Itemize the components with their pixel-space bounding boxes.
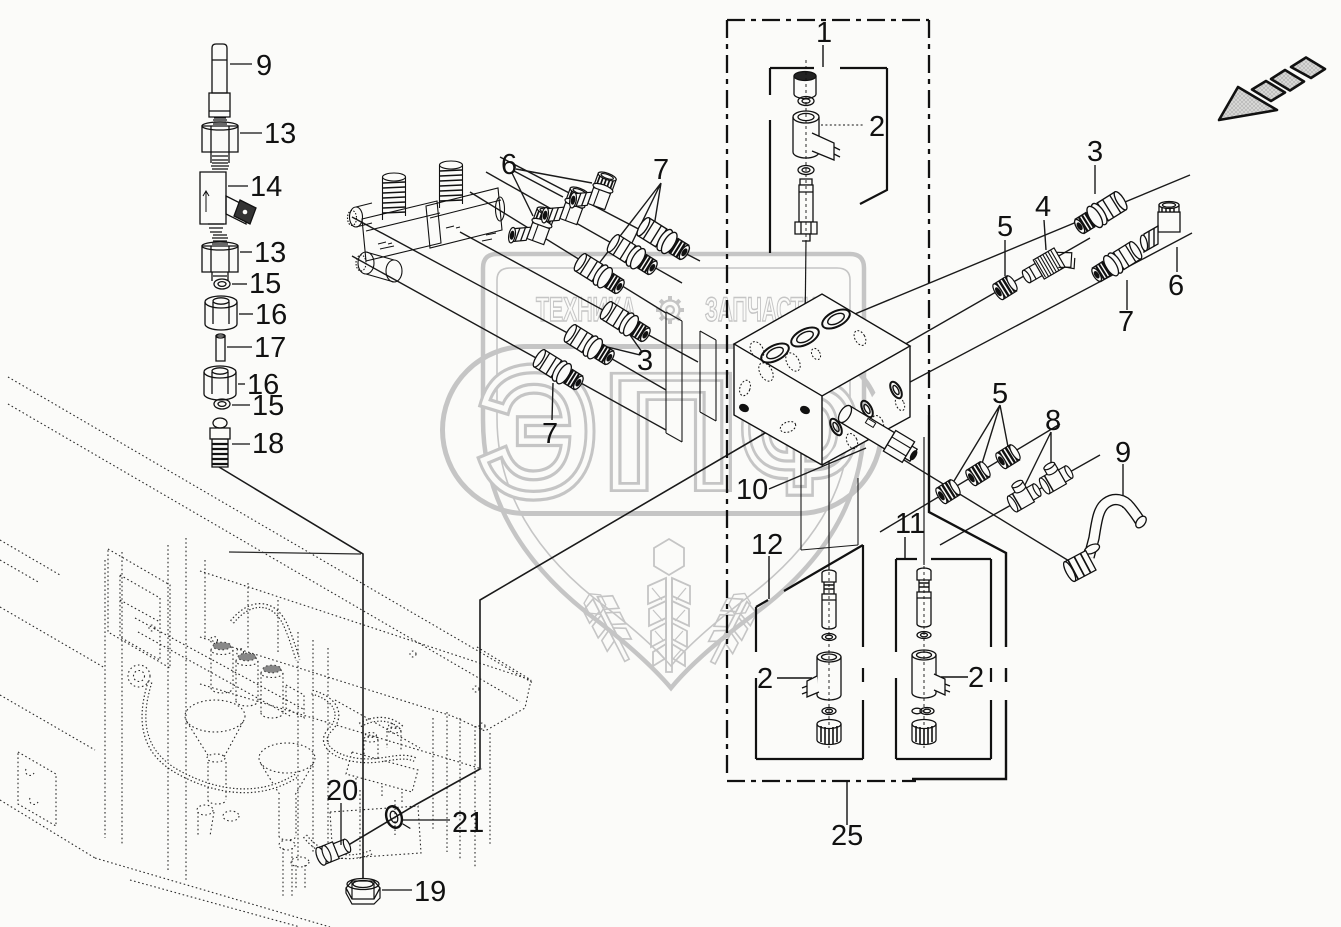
assembly 12 plug [802,560,841,748]
beam screw a [410,651,416,657]
leader label 2 box12 [777,677,812,679]
mounting line block to machine [330,409,806,856]
svg-text:П: П [603,343,739,521]
leader 18 [232,443,250,445]
part 2 valve body top [793,117,819,158]
leader 16 lower [238,383,245,385]
ASSEMBLIES [793,60,950,748]
assembly 11 o-ring [917,632,931,639]
leader 13 lower [240,251,252,253]
leader label 3 fan [587,318,642,355]
funnel 2 bottom valve [291,857,309,867]
STACK [200,44,262,467]
fitting 7 right [1088,239,1145,286]
elbow 8 a [1001,474,1043,514]
box 12 [756,545,863,759]
svg-text:2: 2 [968,662,984,694]
dashed group border top [727,19,929,21]
axis line upper row B-E [486,172,682,283]
part 15 lower o-ring [214,399,230,409]
leader label 4 [1044,220,1046,250]
BOXES [727,20,1006,825]
leader label 5 right [1004,240,1006,276]
leader label 3 right [1094,165,1096,194]
leader 14 [228,185,248,187]
manifold left boss [350,207,363,227]
svg-text:19: 19 [414,876,446,908]
solid enclosure around box 11 [912,415,1006,779]
machine cylinder 3 [261,673,283,718]
fitting 7 row right [634,215,694,265]
part 10 cylinder [835,401,922,466]
elbow fitting 6 left [505,199,557,255]
frame post mid outer [167,545,169,872]
watermark gear [656,296,684,324]
svg-text:13: 13 [264,118,296,150]
part 15 upper o-ring [214,279,230,289]
svg-text:2: 2 [869,111,885,143]
direction arrow dash 2 [1271,70,1304,91]
manifold body right [426,188,502,248]
plate below block [801,452,858,550]
svg-text:6: 6 [1168,270,1184,302]
watermark wheat left ear [578,585,642,668]
elbow 6 right [1139,202,1180,253]
elbow fitting 6 mid [538,179,590,235]
plate for part 20 [330,806,421,859]
machine wheel [128,665,150,687]
block face port dot a [739,403,750,413]
svg-text:11: 11 [895,508,925,540]
leader label 8 fan [1021,432,1051,493]
post right [432,718,434,830]
part 1 stem [800,179,812,185]
manifold 2 feet [356,778,402,804]
manifold body left [362,201,441,261]
leader label 2 box11 [941,676,968,678]
leader 13 upper [240,132,262,134]
svg-text:5: 5 [997,211,1013,243]
svg-text:15: 15 [252,390,284,422]
axis line manifold to H [352,217,666,390]
leader label 7 right [1126,280,1128,310]
nut 5 lower b [964,460,992,487]
part 14 knob [234,200,256,224]
assembly 12 cap [817,724,841,745]
axis part 1 to block [805,240,806,332]
manifold stud left [383,173,406,181]
leader 16 upper [239,313,253,315]
frame beam lower edge [8,404,520,702]
machine top rear line [229,552,361,554]
watermark shield outer [483,254,864,688]
assembly 12 coil [817,657,841,700]
assembly 11 plug [912,560,950,748]
beam end face [452,647,531,731]
part 21 washer [383,803,410,835]
beam bottom edge [200,684,482,769]
part 2 clamp [812,133,840,160]
watermark letter Э [479,331,597,533]
axis line manifold to I [352,256,666,430]
block dotted details top [738,329,907,451]
watermark capsule band [443,347,882,514]
leader label 11 [904,537,906,558]
axis line to part 3 [838,175,1190,321]
axis block to assembly 12 [828,458,830,570]
machine small block [286,685,304,718]
leader label 12 [768,556,770,599]
valve block body [734,294,910,396]
svg-text:14: 14 [250,171,282,203]
WATERMARK [443,254,882,688]
part 14 shut-off valve [211,163,229,169]
part 18 grease fitting [213,418,227,428]
part 4 coupling [1019,241,1080,292]
fitting 3 upper [597,299,654,346]
axis block to assembly 11 [923,437,925,565]
svg-text:20: 20 [326,775,358,807]
svg-text:21: 21 [452,807,484,839]
svg-text:6: 6 [501,149,517,181]
frame bottom sill [0,800,330,927]
axis line upper row A-F [470,192,666,313]
part 13 lower [212,235,228,244]
elbow 8 b [1033,456,1075,496]
axis line upper row C-D [500,157,700,261]
leader label 6 right [1176,247,1178,272]
elbow fitting 6 right [566,164,618,220]
svg-text:9: 9 [1115,437,1131,469]
nut 5 lower a [934,478,962,505]
direction arrow dash 3 [1291,58,1325,79]
leader label 2 top [821,124,864,126]
svg-text:16: 16 [255,299,287,331]
watermark shield inner [497,268,850,666]
beam screw b [473,686,479,692]
manifold end cap [496,197,505,221]
fitting 3 lower [561,322,618,369]
funnel 1 outlet [197,805,213,815]
svg-text:17: 17 [254,332,286,364]
svg-text:4: 4 [1035,191,1051,223]
leader label 5 fan lower [951,405,1009,486]
dashed group border left [726,20,728,773]
fitting 7 bottom [530,347,587,394]
nut 5 lower c [994,443,1022,470]
leader label 7 fan [597,183,661,266]
watermark letter П [603,343,739,521]
extra posts right [0,540,490,868]
axis line manifold to G [460,232,698,362]
part 9 tube [212,44,227,93]
block face port dot b [800,405,811,415]
svg-text:3: 3 [637,345,653,377]
block top port 1 [758,340,792,367]
axis line to part 7 and elbow 6 [895,233,1192,390]
tubes [144,606,416,857]
MACHINE [0,377,533,927]
svg-text:1: 1 [816,17,832,49]
part 16 lower nut [204,372,236,400]
svg-text:15: 15 [249,268,281,300]
shelf bolts [211,637,218,644]
assembly 11 o-rings lower [912,708,922,714]
svg-text:7: 7 [653,154,669,186]
leader label 9 right [1122,464,1124,508]
leader 15 upper [232,283,247,285]
leader 19 [382,889,412,891]
dashed group border bottom [727,780,916,782]
block right port b [859,399,875,419]
direction arrow head [1219,87,1277,120]
leader 21 [403,819,450,821]
part 19 nut [346,879,380,905]
manifold 2 stud b [387,731,401,752]
frame post left inner [121,552,123,845]
AXISLINES [330,157,1192,856]
leader label 6 fan [512,169,592,216]
beam second top edge [200,571,531,680]
block top port 3 [819,306,853,333]
RIGHTPARTS [934,189,1180,583]
manifold stud right [440,161,463,169]
svg-text:9: 9 [256,50,272,82]
ARROW [1219,58,1325,121]
svg-text:13: 13 [254,237,286,269]
leader 17 [227,346,252,348]
svg-text:18: 18 [252,428,284,460]
assembly 12 o-ring lower [822,708,836,715]
frame post mid inner [185,538,187,880]
fitting 7 row left [571,251,628,298]
leader part 18 to nut 19 [219,467,363,879]
svg-text:25: 25 [831,820,863,852]
watermark wheat center ear [648,539,690,672]
part 20 plug [314,836,353,867]
MANIFOLD [348,161,505,282]
BLOCK [734,294,922,467]
assembly 11 stem [917,592,931,627]
frame diag lower b [0,695,95,750]
assembly 12 stem [822,594,836,629]
direction arrow dash 1 [1252,81,1285,101]
assembly 12 o-ring [822,634,836,641]
svg-text:7: 7 [542,418,558,450]
fitting 3 right [1070,189,1130,239]
box part 1 [770,68,887,253]
funnel 2 [259,743,315,773]
leader label 1 [822,45,824,67]
manifold shelf edges [135,618,305,716]
manifold lower couplers [358,252,374,274]
block right port a [828,417,844,437]
svg-text:12: 12 [751,529,783,561]
frame panel inner [120,575,160,660]
dashed group border right [928,20,930,415]
funnel 1 [185,700,245,732]
frame panel [108,549,170,668]
part 1 cap [794,76,816,99]
mid posts [298,632,328,862]
fitting 7 row mid [604,232,661,279]
SMALLPARTS [314,803,450,904]
box 11 [896,559,991,759]
frame beam top edge [8,377,533,683]
svg-text:7: 7 [1118,306,1134,338]
watermark wheat right ear [698,587,762,670]
plate pair left [666,312,716,442]
svg-text:2: 2 [757,663,773,695]
block top port 2 [788,324,822,351]
leader 20 [340,803,342,845]
beam front edge [200,637,452,716]
assembly 11 coil [912,655,936,698]
leader label 7 bottom [552,383,553,420]
watermark letter Ф [741,335,858,527]
part 5 nut right [991,274,1019,301]
leader label 10 [769,448,866,489]
frame left bracket [18,752,56,826]
axis line block to part 9 [850,427,1074,564]
leader 15 lower [232,404,250,406]
part 17 sleeve [216,336,225,361]
assembly 11 cap [912,724,936,745]
funnel 2 outlet [279,840,295,850]
axis line elbows 8 [940,455,1100,545]
part 16 upper nut [205,302,237,330]
part 1 o-ring lower [798,166,814,175]
manifold 2 body [346,752,418,792]
machine cylinder 1 [211,650,233,693]
svg-text:5: 5 [992,378,1008,410]
frame post left outer [104,560,106,838]
manifold 2 stud a [364,740,378,760]
block right port c [888,380,904,400]
svg-text:3: 3 [1087,136,1103,168]
axis line to parts 5 4 [902,238,1090,346]
machine cylinder 2 [236,661,258,706]
svg-text:8: 8 [1045,405,1061,437]
frame diag lower a [0,607,105,668]
axis line nuts 5 [880,424,1060,532]
part 1 centerline [805,60,807,246]
part 1 o-ring upper [798,97,814,106]
leader label 25 [846,781,848,825]
leader 9 [230,63,252,65]
machine link line [335,700,420,748]
part 9 pipe [1061,500,1148,583]
svg-text:10: 10 [736,474,768,506]
part 13 upper [213,118,227,124]
FITTINGS [505,164,694,394]
